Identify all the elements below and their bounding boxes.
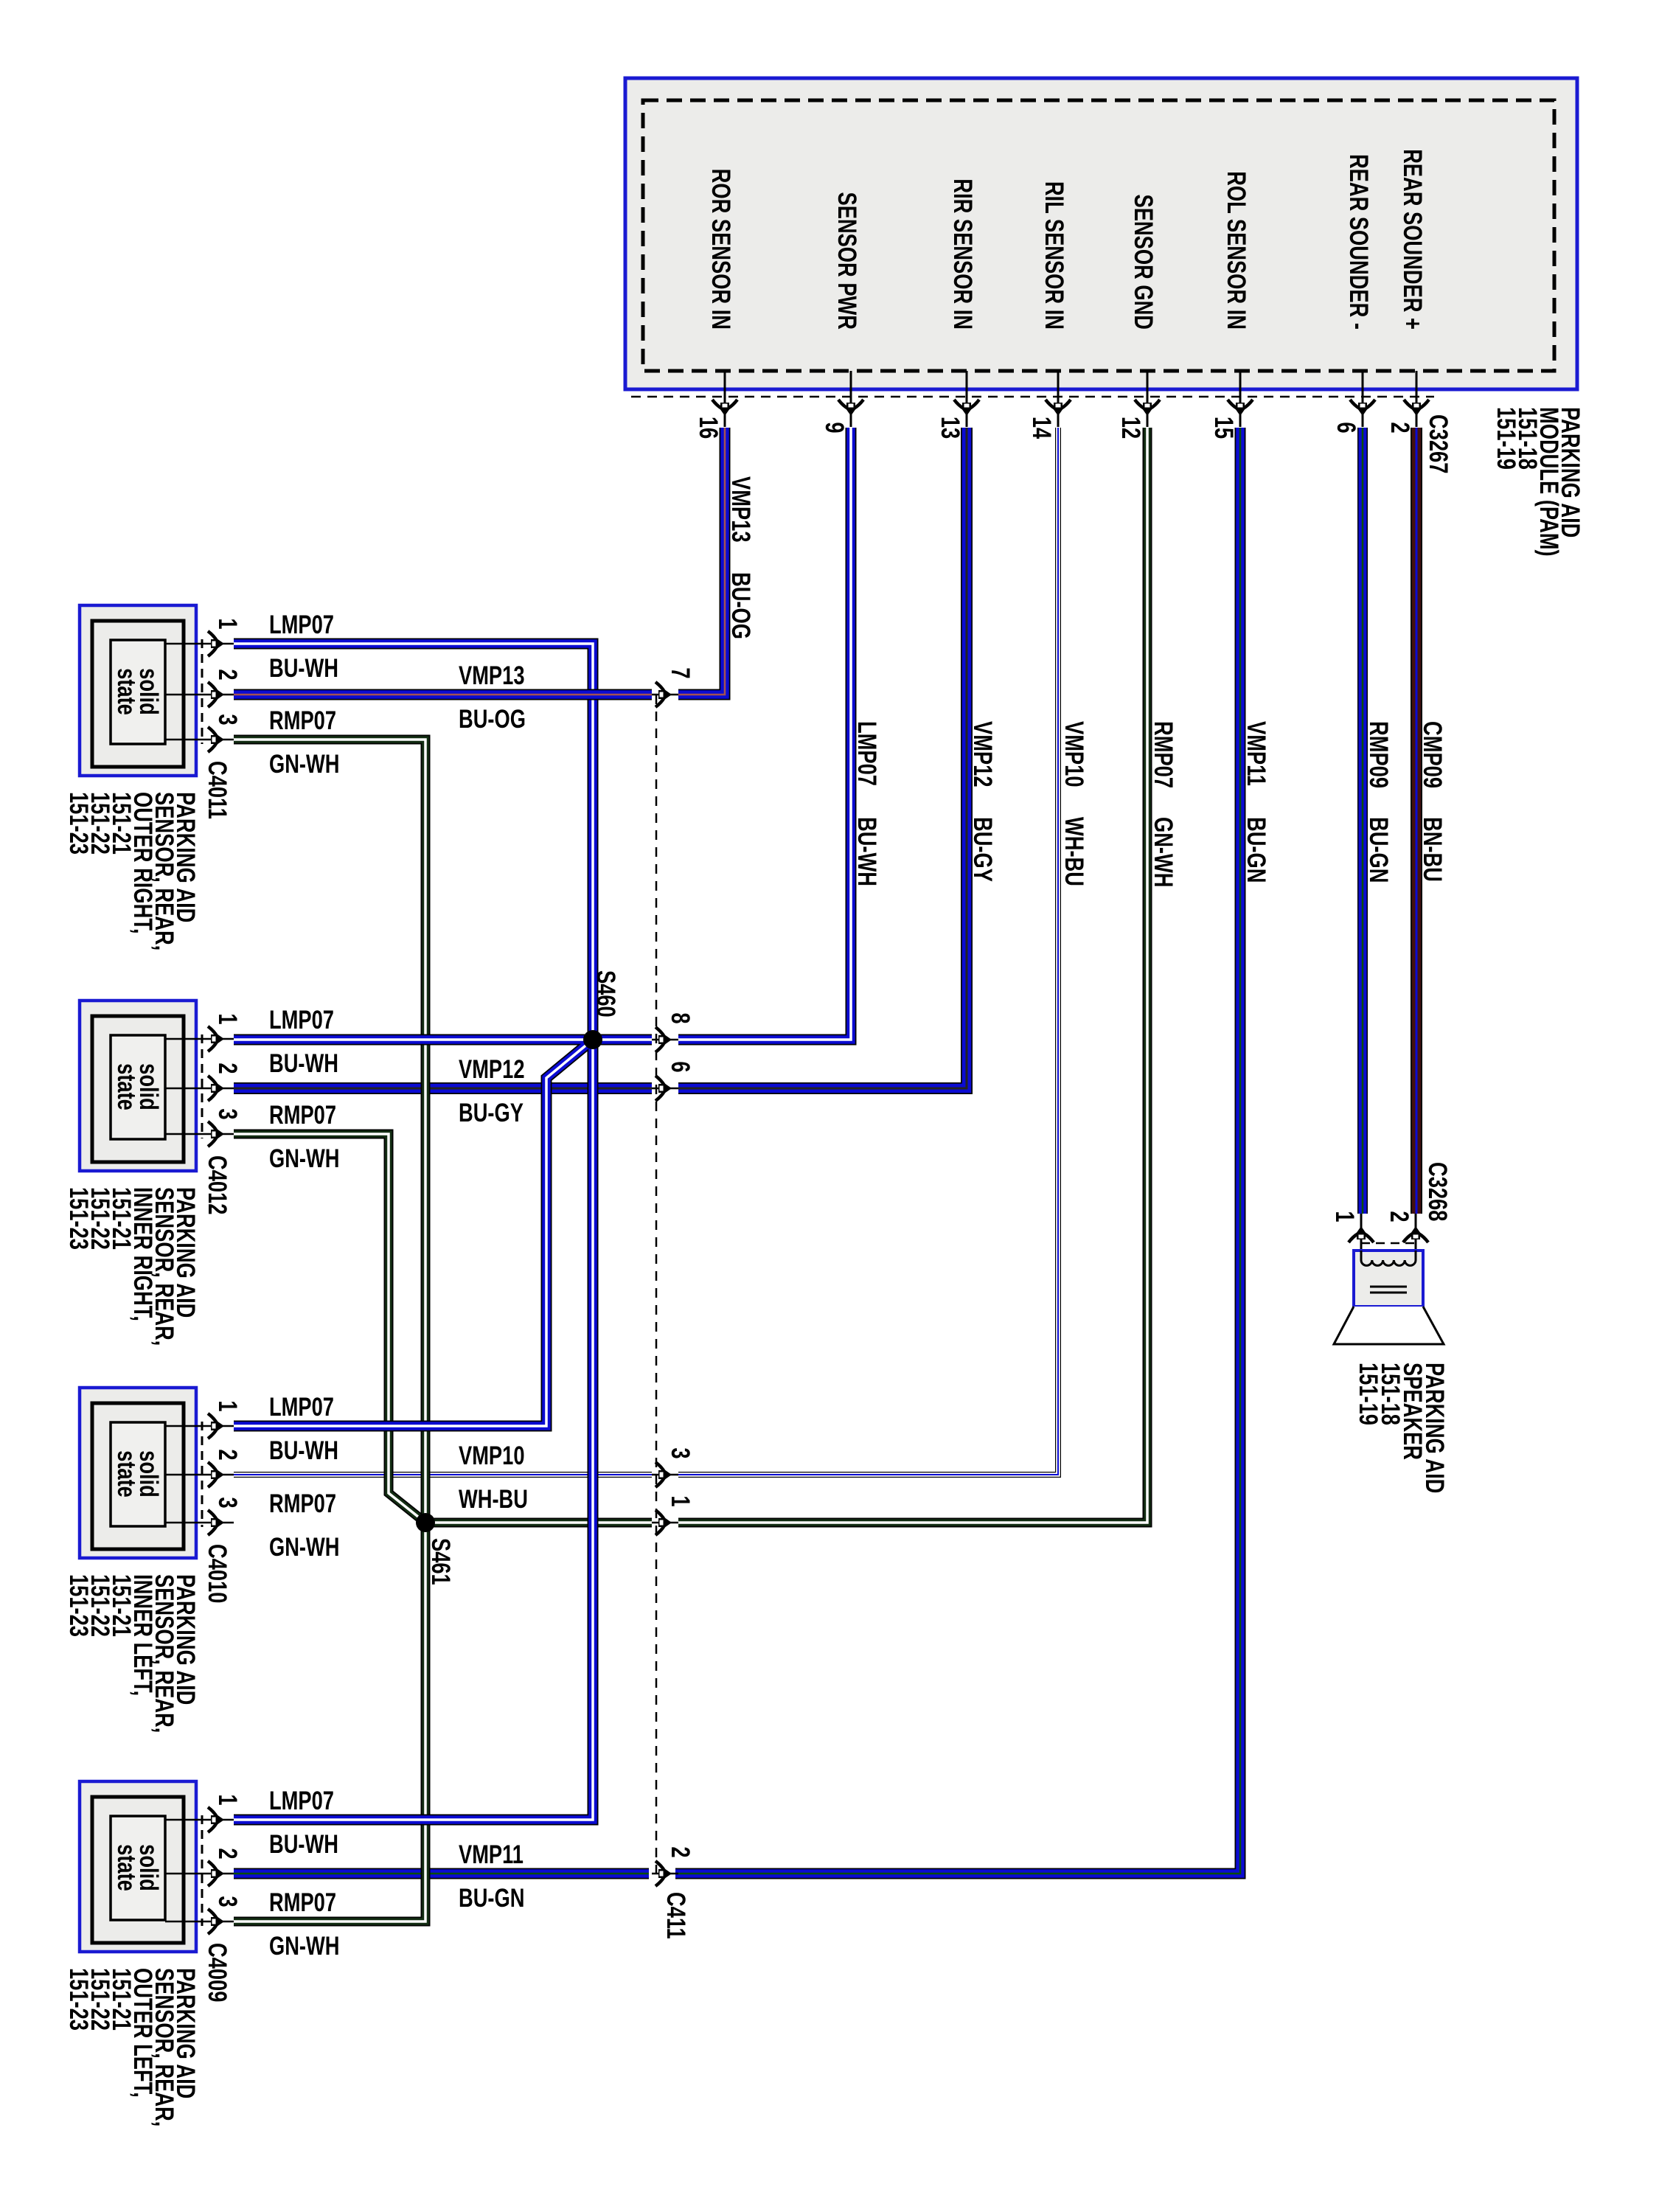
module pin label ROR SENSOR IN xyxy=(706,169,735,330)
svg-text:VMP10: VMP10 xyxy=(459,1441,524,1470)
module pin 13 stub and connector xyxy=(936,371,979,439)
svg-text:SENSOR GND: SENSOR GND xyxy=(1129,195,1158,330)
module U1 PARKING AID MODULE (PAM) box xyxy=(625,78,1577,389)
svg-text:BU-GN: BU-GN xyxy=(1364,817,1393,883)
wire label LMP07 BU-WH at C4012 xyxy=(269,1006,338,1078)
wire label VMP12 BU-GY at C4012 xyxy=(459,1055,524,1127)
module pin 15 stub and connector xyxy=(1209,371,1253,439)
svg-text:WH-BU: WH-BU xyxy=(1060,817,1088,886)
connector C4009 label xyxy=(203,1943,232,2002)
connector C3267 dashed line xyxy=(631,396,1434,398)
connector C4012 label xyxy=(203,1155,232,1214)
module pin 2 stub and connector xyxy=(1385,371,1429,434)
svg-text:state: state xyxy=(112,1450,141,1498)
connector C411 pin 1 xyxy=(652,1495,695,1535)
svg-text:C4012: C4012 xyxy=(203,1155,232,1214)
svg-text:1: 1 xyxy=(666,1495,695,1506)
svg-text:1: 1 xyxy=(213,618,242,629)
wire label RMP07 GN-WH at C4010 xyxy=(269,1489,339,1562)
svg-text:GN-WH: GN-WH xyxy=(269,1144,339,1173)
connector C411 dashed line xyxy=(655,695,658,1874)
sensor C4010 connector dashed line xyxy=(201,1422,204,1527)
svg-text:C4011: C4011 xyxy=(203,761,232,819)
sensor C4011 pin 1 xyxy=(165,618,242,656)
connector C411 pin 2 xyxy=(652,1846,695,1886)
svg-text:2: 2 xyxy=(666,1846,695,1857)
wire label RMP09 BU-GN xyxy=(1364,721,1393,883)
svg-text:GN-WH: GN-WH xyxy=(269,750,339,779)
wire label VMP13 BU-OG at C4011 xyxy=(459,661,526,734)
svg-text:151-19: 151-19 xyxy=(1354,1363,1382,1425)
svg-text:VMP11: VMP11 xyxy=(459,1840,524,1869)
wire VMP11 BU-GN (sensor 4 pin 2 to module pin 15) xyxy=(234,428,1240,1874)
svg-text:BU-GY: BU-GY xyxy=(968,817,997,882)
module pin 12 stub and connector xyxy=(1116,371,1160,439)
speaker PARKING AID SPEAKER symbol xyxy=(1334,1251,1444,1344)
sensor C4009 connector dashed line xyxy=(201,1815,204,1926)
sensor C4010 PARKING AID SENSOR box xyxy=(80,1388,196,1558)
svg-text:12: 12 xyxy=(1116,417,1145,439)
sensor C4009 description text xyxy=(64,1968,200,2126)
module pin 16 stub and connector xyxy=(694,371,737,439)
svg-text:151-23: 151-23 xyxy=(64,1574,93,1637)
module pin 6 stub and connector xyxy=(1332,371,1375,434)
svg-text:2: 2 xyxy=(213,1449,242,1460)
svg-text:VMP11: VMP11 xyxy=(1242,721,1270,786)
sensor C4010 pin 1 xyxy=(165,1400,242,1439)
svg-text:S461: S461 xyxy=(426,1538,455,1585)
svg-text:C3267: C3267 xyxy=(1424,414,1453,473)
wire label VMP11 BU-GN xyxy=(1242,721,1270,883)
wire RMP07 GN-WH net (sensors to splice S461 to module pin 12) xyxy=(234,428,1147,1921)
svg-text:LMP07: LMP07 xyxy=(269,1787,334,1815)
svg-text:state: state xyxy=(112,1844,141,1891)
svg-text:15: 15 xyxy=(1209,417,1238,439)
module pin label RIL SENSOR IN xyxy=(1040,181,1068,330)
module pin label SENSOR PWR xyxy=(832,192,861,330)
svg-text:LMP07: LMP07 xyxy=(269,1393,334,1422)
wire VMP12 BU-GY (sensor 2 pin 2 to module pin 13) xyxy=(234,428,967,1088)
svg-text:C3268: C3268 xyxy=(1423,1162,1452,1221)
svg-text:RMP07: RMP07 xyxy=(269,1489,336,1518)
svg-text:REAR SOUNDER -: REAR SOUNDER - xyxy=(1344,154,1373,330)
svg-text:VMP10: VMP10 xyxy=(1060,721,1088,787)
svg-text:13: 13 xyxy=(936,417,964,439)
sensor C4012 pin 1 xyxy=(165,1013,242,1051)
svg-text:1: 1 xyxy=(213,1013,242,1024)
svg-text:RMP07: RMP07 xyxy=(269,1888,336,1917)
svg-text:VMP13: VMP13 xyxy=(459,661,524,690)
connector C4010 label xyxy=(203,1544,232,1603)
speaker connector dashed line xyxy=(1361,1242,1416,1245)
svg-text:ROR SENSOR IN: ROR SENSOR IN xyxy=(706,169,735,330)
svg-text:BU-GN: BU-GN xyxy=(459,1884,524,1913)
svg-text:state: state xyxy=(112,1063,141,1110)
sensor C4012 pin 2 xyxy=(165,1062,242,1101)
svg-text:REAR SOUNDER +: REAR SOUNDER + xyxy=(1398,149,1427,330)
svg-text:8: 8 xyxy=(666,1012,695,1023)
sensor C4011 description text xyxy=(64,792,200,950)
svg-text:3: 3 xyxy=(213,1896,242,1907)
svg-text:VMP13: VMP13 xyxy=(726,476,755,542)
wire label LMP07 BU-WH xyxy=(852,721,881,886)
sensor C4012 description text xyxy=(64,1187,200,1346)
svg-text:S460: S460 xyxy=(591,970,620,1018)
connector C411 pin 8 xyxy=(652,1012,695,1052)
svg-text:BU-WH: BU-WH xyxy=(269,1830,338,1859)
svg-text:RMP09: RMP09 xyxy=(1364,721,1393,788)
svg-text:1: 1 xyxy=(213,1794,242,1805)
speaker pin 2 stub and connector xyxy=(1385,1211,1428,1253)
svg-text:GN-WH: GN-WH xyxy=(1149,817,1178,887)
wire label VMP12 BU-GY xyxy=(968,721,997,882)
svg-text:14: 14 xyxy=(1027,417,1056,439)
svg-text:151-23: 151-23 xyxy=(64,1187,93,1250)
svg-text:RIL SENSOR IN: RIL SENSOR IN xyxy=(1040,181,1068,330)
wire label RMP07 GN-WH at C4012 xyxy=(269,1101,339,1173)
connector C411 pin 6 xyxy=(652,1061,695,1101)
svg-text:VMP12: VMP12 xyxy=(459,1055,524,1084)
wire label LMP07 BU-WH at C4011 xyxy=(269,611,338,683)
svg-text:LMP07: LMP07 xyxy=(852,721,881,786)
splice S461 xyxy=(416,1513,455,1585)
sensor C4010 pin 2 xyxy=(165,1449,242,1487)
svg-text:2: 2 xyxy=(213,669,242,680)
svg-text:BU-WH: BU-WH xyxy=(269,1049,338,1078)
svg-text:BU-WH: BU-WH xyxy=(269,654,338,683)
svg-text:1: 1 xyxy=(1330,1211,1359,1222)
connector C411 pin 7 xyxy=(652,667,695,707)
wire label VMP13 BU-OG xyxy=(726,476,755,639)
svg-text:GN-WH: GN-WH xyxy=(269,1932,339,1961)
sensor C4009 pin 2 xyxy=(165,1848,242,1886)
sensor C4009 pin 3 xyxy=(165,1896,242,1934)
svg-text:16: 16 xyxy=(694,417,723,439)
svg-text:3: 3 xyxy=(213,1108,242,1119)
svg-text:GN-WH: GN-WH xyxy=(269,1533,339,1562)
svg-text:151-23: 151-23 xyxy=(64,1968,93,2031)
sensor C4011 connector dashed line xyxy=(201,639,204,744)
svg-text:LMP07: LMP07 xyxy=(269,1006,334,1034)
svg-text:RIR SENSOR IN: RIR SENSOR IN xyxy=(948,178,977,330)
svg-text:9: 9 xyxy=(820,422,849,433)
svg-text:1: 1 xyxy=(213,1400,242,1411)
svg-text:CMP09: CMP09 xyxy=(1418,721,1447,788)
svg-text:C4010: C4010 xyxy=(203,1544,232,1603)
svg-text:RMP07: RMP07 xyxy=(269,1101,336,1130)
wire VMP10 WH-BU (sensor 3 pin 2 to module pin 14) xyxy=(234,428,1058,1475)
wire label LMP07 BU-WH at C4009 xyxy=(269,1787,338,1859)
svg-text:151-23: 151-23 xyxy=(64,792,93,855)
svg-text:BU-GY: BU-GY xyxy=(459,1099,524,1127)
svg-text:3: 3 xyxy=(213,714,242,725)
connector C411 label xyxy=(661,1892,690,1939)
module pin label RIR SENSOR IN xyxy=(948,178,977,330)
svg-text:6: 6 xyxy=(666,1061,695,1072)
wire VMP13 BU-OG (sensor 1 pin 2 to module pin 16) xyxy=(234,428,725,695)
module pin label ROL SENSOR IN xyxy=(1222,171,1251,330)
wire RMP09 BU-GN (module pin 6 to speaker pin 1) xyxy=(1357,428,1368,1214)
wire label VMP10 WH-BU at C4010 xyxy=(459,1441,528,1514)
svg-text:2: 2 xyxy=(213,1848,242,1859)
svg-text:C411: C411 xyxy=(661,1892,690,1939)
svg-text:BU-WH: BU-WH xyxy=(852,817,881,886)
wire CMP09 BN-BU (module pin 2 to speaker pin 2) xyxy=(1411,428,1422,1214)
sensor C4009 PARKING AID SENSOR box xyxy=(80,1781,196,1952)
wire label VMP10 WH-BU xyxy=(1060,721,1088,886)
svg-text:151-19: 151-19 xyxy=(1492,407,1520,470)
svg-text:RMP07: RMP07 xyxy=(269,706,336,735)
svg-text:3: 3 xyxy=(213,1497,242,1508)
wire label RMP07 GN-WH at C4011 xyxy=(269,706,339,779)
svg-text:VMP12: VMP12 xyxy=(968,721,997,787)
connector C3268 label xyxy=(1423,1162,1452,1221)
svg-text:BU-OG: BU-OG xyxy=(726,572,755,639)
module pin label REAR SOUNDER + xyxy=(1398,149,1427,330)
wire LMP07 BU-WH net (sensors 1-4 to splice S460 to module pin 9) xyxy=(234,428,851,1820)
svg-text:RMP07: RMP07 xyxy=(1149,721,1178,788)
svg-text:state: state xyxy=(112,668,141,715)
module pin label REAR SOUNDER - xyxy=(1344,154,1373,330)
splice S460 xyxy=(583,970,620,1049)
svg-text:BU-GN: BU-GN xyxy=(1242,817,1270,883)
svg-text:3: 3 xyxy=(666,1447,695,1458)
connector C4011 label xyxy=(203,761,232,819)
wire label VMP11 BU-GN at C4009 xyxy=(459,1840,524,1913)
sensor C4009 pin 1 xyxy=(165,1794,242,1832)
svg-text:BN-BU: BN-BU xyxy=(1418,817,1447,882)
wire label RMP07 GN-WH at C4009 xyxy=(269,1888,339,1961)
wire label RMP07 GN-WH xyxy=(1149,721,1178,887)
svg-text:7: 7 xyxy=(666,667,695,678)
svg-text:BU-OG: BU-OG xyxy=(459,705,526,734)
sensor C4011 pin 2 xyxy=(165,669,242,707)
wire label LMP07 BU-WH at C4010 xyxy=(269,1393,338,1465)
speaker pin 1 stub and connector xyxy=(1330,1211,1374,1253)
svg-text:WH-BU: WH-BU xyxy=(459,1485,528,1514)
svg-text:2: 2 xyxy=(1385,422,1414,433)
sensor C4011 pin 3 xyxy=(165,714,242,752)
svg-text:ROL SENSOR IN: ROL SENSOR IN xyxy=(1222,171,1251,330)
sensor C4012 pin 3 xyxy=(165,1108,242,1147)
svg-text:6: 6 xyxy=(1332,422,1360,433)
module pin label SENSOR GND xyxy=(1129,195,1158,330)
module pin 9 stub and connector xyxy=(820,371,863,434)
speaker description text xyxy=(1354,1363,1449,1493)
svg-text:LMP07: LMP07 xyxy=(269,611,334,639)
svg-text:SENSOR PWR: SENSOR PWR xyxy=(832,192,861,330)
sensor C4012 PARKING AID SENSOR box xyxy=(80,1001,196,1171)
connector C411 pin 3 xyxy=(652,1447,695,1487)
sensor C4012 connector dashed line xyxy=(201,1034,204,1138)
svg-text:2: 2 xyxy=(1385,1211,1413,1222)
svg-text:2: 2 xyxy=(213,1062,242,1074)
connector C3267 label xyxy=(1424,414,1453,473)
module PAM side note text xyxy=(1492,407,1585,557)
svg-text:C4009: C4009 xyxy=(203,1943,232,2002)
sensor C4010 pin 3 xyxy=(165,1497,242,1535)
sensor C4010 description text xyxy=(64,1574,200,1733)
module pin 14 stub and connector xyxy=(1027,371,1071,439)
sensor C4011 PARKING AID SENSOR box xyxy=(80,605,196,776)
svg-text:BU-WH: BU-WH xyxy=(269,1436,338,1465)
wire label CMP09 BN-BU xyxy=(1418,721,1447,882)
